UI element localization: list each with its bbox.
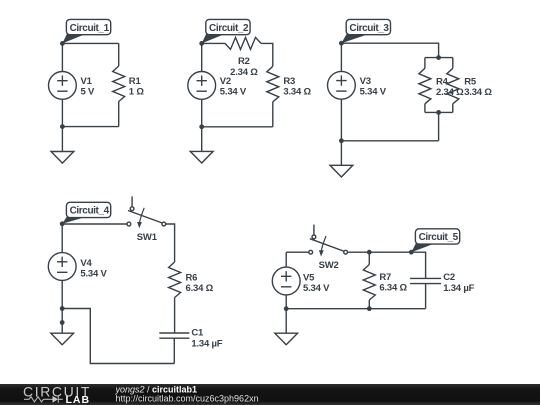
svg-text:2.34 Ω: 2.34 Ω [230, 67, 258, 78]
wire top-right from R2 [261, 43, 273, 66]
resistor R2 [225, 37, 261, 49]
svg-text:C1: C1 [191, 328, 204, 339]
label R7 6.34 ohm [379, 272, 407, 294]
label V4 5.34 V [80, 258, 107, 280]
node top-left junction (circuit 3) [339, 41, 344, 46]
label R3 3.34 ohm [283, 76, 311, 98]
switch SW2 [309, 225, 348, 257]
resistor R3 [267, 66, 279, 102]
callout Circuit_3 [341, 19, 390, 43]
node parallel bottom junction [436, 110, 441, 115]
wire parallel bottom bar [425, 104, 453, 113]
svg-text:V1: V1 [81, 76, 93, 87]
callout Circuit_4 [62, 202, 110, 224]
wire C1 to bottom [173, 338, 175, 363]
svg-text:http://circuitlab.com/cuz6c3ph: http://circuitlab.com/cuz6c3ph962xn [116, 393, 259, 403]
svg-text:R6: R6 [186, 273, 198, 284]
svg-text:C2: C2 [443, 272, 455, 283]
node left junction (circuit 4) [60, 306, 65, 311]
label R5 3.34 ohm [464, 77, 492, 99]
ground (circuit 3) [330, 141, 353, 177]
switch SW1 [127, 196, 166, 228]
resistor R4 [419, 68, 431, 104]
svg-text:LAB: LAB [66, 394, 91, 405]
label C2 1.34 uF [443, 272, 474, 294]
svg-text:SW2: SW2 [319, 260, 339, 271]
voltage source V4 [48, 253, 76, 281]
resistor R5 [447, 68, 459, 104]
node ground junction (circuit 4) [60, 320, 65, 325]
voltage source V3 [328, 71, 356, 99]
wire left upper lead to V4 [61, 224, 63, 253]
wire bottom (circuit 1) [62, 126, 118, 128]
voltage source V1 [49, 72, 77, 100]
node bottom junction (circuit 1) [60, 124, 65, 129]
wire parallel top bar [425, 58, 453, 69]
label V3 5.34 V [360, 76, 387, 97]
wire bottom (circuit 5) [286, 308, 425, 310]
svg-text:5.34 V: 5.34 V [80, 269, 107, 280]
label V2 5.34 V [220, 76, 247, 98]
ground (circuit 1) [51, 127, 74, 164]
resistor R1 [113, 66, 125, 102]
svg-text:5.34 V: 5.34 V [360, 87, 387, 98]
wire right lower lead from R3 [272, 102, 274, 127]
node R7 top junction [367, 250, 372, 255]
capacitor C1 [159, 333, 189, 338]
wire top-left to R2 [202, 42, 225, 44]
wire left lower lead from V1 [61, 99, 63, 126]
wire C2 to bottom [425, 284, 427, 309]
node bottom-left junction (circuit 5) [284, 306, 289, 311]
svg-text:3.34 Ω: 3.34 Ω [283, 87, 311, 98]
node bottom junction (circuit 2) [199, 124, 204, 129]
wire left upper lead to V3 [340, 43, 342, 71]
node R7 bottom junction [367, 306, 372, 311]
wire R6 to C1 [174, 298, 176, 334]
node bottom junction (circuit 3) [339, 138, 344, 143]
resistor R6 [169, 262, 181, 298]
svg-text:R5: R5 [464, 77, 477, 88]
svg-text:V3: V3 [360, 76, 371, 87]
svg-text:V4: V4 [80, 258, 92, 269]
callout Circuit_5 [411, 229, 459, 252]
wire left lower lead from V3 [340, 99, 342, 141]
ground (circuit 5) [275, 309, 298, 345]
capacitor C2 [410, 278, 441, 283]
svg-text:5 V: 5 V [81, 87, 96, 98]
wire from SW1 to R6 branch [166, 224, 175, 262]
svg-text:1 Ω: 1 Ω [129, 87, 145, 98]
wire left lower lead from V2 [201, 99, 203, 127]
ground (circuit 4) [51, 323, 74, 345]
voltage source V2 [188, 72, 216, 100]
wire bottom (circuit 3) [341, 140, 438, 142]
wire R7 branch upper [368, 252, 370, 264]
node top-left junction (circuit 4) [60, 221, 65, 226]
wire right upper lead to R1 [118, 43, 120, 66]
node parallel top junction [436, 55, 441, 60]
label V5 5.34 V [303, 273, 330, 295]
label R2 2.34 ohm [230, 56, 258, 78]
label C1 1.34 uF [191, 328, 222, 350]
svg-text:6.34 Ω: 6.34 Ω [379, 283, 407, 294]
wire top (circuit 1) [62, 42, 118, 44]
wire right lower lead from R1 [118, 102, 120, 127]
ground (circuit 2) [190, 127, 213, 163]
svg-text:R2: R2 [238, 56, 250, 67]
wire right lower (circuit 3) [438, 112, 440, 140]
wire R7 branch lower [368, 300, 370, 309]
wire top-left to SW1 [62, 223, 127, 225]
wire top-left to SW2 [286, 252, 309, 267]
resistor R7 [363, 265, 375, 301]
svg-text:Circuit_2: Circuit_2 [209, 23, 249, 34]
wire left upper lead to V1 [61, 43, 63, 71]
svg-text:Circuit_5: Circuit_5 [419, 232, 459, 243]
callout Circuit_1 [62, 19, 110, 43]
wire left lower lead from V4 [61, 280, 63, 322]
svg-text:1.34 µF: 1.34 µF [443, 283, 474, 294]
svg-text:R3: R3 [283, 76, 295, 87]
callout Circuit_2 [202, 19, 250, 43]
svg-text:R7: R7 [379, 272, 391, 283]
svg-text:SW1: SW1 [137, 232, 158, 243]
svg-text:5.34 V: 5.34 V [220, 87, 247, 98]
label R6 6.34 ohm [186, 273, 214, 295]
wire bottom (circuit 2) [202, 126, 273, 128]
svg-text:Circuit_4: Circuit_4 [70, 206, 110, 217]
node top-left junction (circuit 2) [199, 41, 204, 46]
wire from SW2 to C2 branch [348, 252, 426, 278]
wire left upper lead to V2 [201, 43, 203, 71]
label R1 1 ohm [129, 76, 145, 98]
svg-text:Circuit_1: Circuit_1 [70, 23, 110, 34]
svg-text:Circuit_3: Circuit_3 [349, 23, 389, 34]
svg-text:2.34 Ω: 2.34 Ω [436, 87, 464, 98]
voltage source V5 [272, 267, 300, 295]
svg-text:R4: R4 [436, 77, 449, 88]
CircuitLab logo [23, 384, 91, 405]
label V1 5 V [81, 76, 96, 98]
wire branch to bottom rail (circuit 4) [62, 309, 174, 364]
footer bar [0, 384, 540, 405]
svg-text:V2: V2 [220, 76, 231, 87]
wire left lower lead from V5 [285, 295, 287, 309]
wire top (circuit 3) [341, 43, 438, 57]
svg-text:V5: V5 [303, 273, 315, 284]
svg-text:6.34 Ω: 6.34 Ω [186, 283, 214, 294]
svg-text:5.34 V: 5.34 V [303, 283, 330, 294]
node top-left junction (circuit 1) [60, 41, 65, 46]
label R4 2.34 ohm [436, 77, 464, 99]
svg-text:R1: R1 [129, 76, 142, 87]
node callout junction (circuit 5) [409, 250, 414, 255]
svg-text:3.34 Ω: 3.34 Ω [464, 87, 492, 98]
svg-text:1.34 µF: 1.34 µF [191, 338, 222, 349]
